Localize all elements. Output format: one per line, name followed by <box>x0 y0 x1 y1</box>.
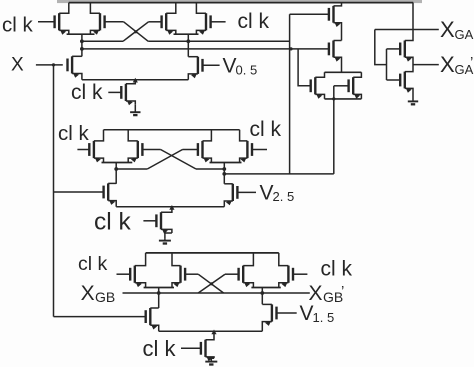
label V2.5 subscript <box>273 189 295 204</box>
junction arrow tail3 drain <box>211 330 216 335</box>
junction arrow tail2 drain <box>169 205 174 210</box>
ground stage1 <box>130 104 140 115</box>
wire M11 gate stub <box>252 149 267 151</box>
label V2.5 main <box>260 181 274 204</box>
transistor M18 clk right (stage3 pair2) <box>279 253 293 288</box>
wire stage2 output to keeper <box>224 173 333 175</box>
wire M13 gate stub <box>237 191 256 193</box>
label clk stage1 tail <box>71 81 103 104</box>
label XGB' subscript <box>323 289 343 305</box>
transistor M6 V0.5 (stage1 lower pair) <box>188 57 202 80</box>
wire stage3 top rail <box>146 252 279 254</box>
label V1.5 subscript <box>313 310 335 325</box>
wire XGA' node <box>413 64 439 66</box>
wire M4 gate stub <box>211 21 226 23</box>
svg-text:cl k: cl k <box>321 257 353 280</box>
junction nodeB / V05 drain <box>186 39 190 43</box>
wire cross diagonal 2 (M3 gate to left node) <box>123 22 149 42</box>
wire M23 source to keeper <box>341 58 343 73</box>
junction crossing stage1 <box>134 30 137 33</box>
wire stage2 pair2 output vertical <box>223 163 225 184</box>
wire stage3 pair1 output rail <box>144 287 174 289</box>
wire tail2 source jog <box>165 233 172 239</box>
junction arrow tail1 drain <box>133 78 138 83</box>
label XGB' prime <box>341 283 344 300</box>
transistor M10 cross-coupled (stage2 pair2) <box>183 130 212 163</box>
label XGB main <box>81 282 95 305</box>
svg-text:cl k: cl k <box>2 13 34 36</box>
svg-text:cl k: cl k <box>58 122 90 145</box>
label clk stage2 left <box>58 122 90 145</box>
label clk stage3 tail <box>143 336 177 361</box>
wire clk1 left gate <box>38 21 55 23</box>
wire X vertical bus left <box>53 65 55 317</box>
label clk stage2 tail <box>94 209 132 236</box>
wire keeper bottom rail <box>325 98 362 100</box>
transistor M15 clk left (stage3 pair1) <box>117 253 146 288</box>
wire s2 cross diagonal 2 <box>147 150 182 170</box>
transistor M17 cross-coupled (stage3 pair2) <box>225 253 253 288</box>
svg-text:X: X <box>440 52 455 77</box>
transistor M27 keeper right <box>349 72 362 99</box>
wire X input <box>36 64 63 66</box>
wire keeper gate left vertical <box>298 49 311 86</box>
transistor M22 buffer top <box>329 3 342 27</box>
wire stage1 pair1 output rail <box>67 33 95 35</box>
svg-text:cl k: cl k <box>71 81 103 104</box>
label clk stage1 right <box>238 10 270 33</box>
junction keeper source rail / vertical <box>332 97 335 100</box>
transistor M14 clk tail stage2 <box>143 207 172 234</box>
svg-text:0. 5: 0. 5 <box>236 62 258 77</box>
transistor M13 V2.5 (stage2 lower pair) <box>224 184 237 207</box>
wire M6 gate stub <box>203 64 220 66</box>
wire M2 gate to crossing <box>105 21 124 23</box>
transistor M16 cross-coupled (stage3 pair1) <box>172 253 185 288</box>
svg-text:GA: GA <box>455 27 474 42</box>
wire XGA node <box>375 29 439 31</box>
wire stage1 source rail <box>82 79 188 81</box>
junction pair1-out / wireB <box>80 47 84 51</box>
wire stage3 pair1 output vertical <box>158 288 160 309</box>
label clk stage2 right <box>250 118 282 141</box>
svg-text:V: V <box>223 55 237 78</box>
wire inverter mid node <box>412 58 414 72</box>
transistor M11 clk right (stage2 pair2) <box>240 130 252 163</box>
wire s3 cross diagonal 2 <box>198 274 225 293</box>
vdd gray band <box>57 0 422 3</box>
transistor M5 input X (stage1 lower pair) <box>68 56 82 79</box>
svg-text:cl k: cl k <box>250 118 282 141</box>
wire inverter gates vertical <box>386 49 388 80</box>
label clk stage3 left <box>78 253 108 275</box>
transistor M26 keeper left <box>311 72 325 99</box>
wire buffer top gate <box>290 13 329 15</box>
label XGA' prime <box>470 54 473 71</box>
wire stage2 pair2 output rail <box>210 162 242 164</box>
wire mid node A1-A2 <box>341 23 343 41</box>
wire keeper top rail <box>325 71 362 73</box>
junction X wire / left vertical <box>52 63 55 66</box>
svg-text:X: X <box>11 55 24 76</box>
transistor M7 clk tail stage1 <box>108 80 135 106</box>
transistor M8 clk left (stage2 pair1) <box>77 130 103 163</box>
wire node B right (pair2 output to buffer) <box>148 40 289 42</box>
wire stage2 source rail <box>116 206 224 208</box>
svg-text:X: X <box>81 282 95 305</box>
svg-text:cl k: cl k <box>238 10 270 33</box>
svg-text:1. 5: 1. 5 <box>313 310 335 325</box>
wire M20 gate stub <box>277 312 297 314</box>
wire XGA tap down <box>375 30 387 65</box>
label XGA' main <box>440 52 455 77</box>
wire cross diagonal 1 (M2 gate to right node) <box>124 22 149 42</box>
wire tail3 source jog <box>211 358 214 361</box>
label X input <box>11 55 24 76</box>
wire node C (pair1 output to buffer gate) <box>82 48 329 50</box>
wire stage1 pair2 output rail <box>174 33 199 35</box>
label XGA' subscript <box>455 62 474 77</box>
transistor M9 cross-coupled (stage2 pair1) <box>128 130 142 163</box>
transistor M21 clk tail stage3 <box>181 331 214 361</box>
power rail VDD <box>69 2 413 4</box>
ground stage2 <box>159 239 171 244</box>
transistor M1 clk left (stage1 pair1) <box>55 3 69 35</box>
transistor M23 buffer second <box>329 41 342 62</box>
svg-text:V: V <box>300 302 314 325</box>
transistor M4 clk right (stage1 pair2) <box>196 3 210 35</box>
ground stage3 <box>205 362 217 365</box>
wire vert1 stage outputs bus <box>289 14 291 174</box>
label clk stage1 left <box>2 13 34 36</box>
svg-text:cl k: cl k <box>143 336 177 361</box>
transistor M24 inverter top <box>387 3 414 62</box>
wire s3 cross diagonal 1 <box>198 274 223 293</box>
junction wireC / vert1 <box>289 47 292 50</box>
junction XGB / pair1-out <box>157 291 161 295</box>
label XGA main <box>440 17 455 42</box>
wire stage3 source rail <box>159 330 263 332</box>
transistor M19 (stage3 lower pair left) <box>146 308 159 331</box>
label V0.5 subscript <box>236 62 258 77</box>
wire stage1 pair1 output vertical <box>81 34 83 56</box>
junction s2 pair2-out / crossA <box>222 167 226 171</box>
wire M18 gate stub <box>293 273 307 275</box>
label V1.5 main <box>300 302 314 325</box>
wire stage2 lower-left gate <box>54 191 104 193</box>
wire s2 node A left <box>116 168 147 170</box>
label XGB' main <box>309 282 323 305</box>
svg-text:cl k: cl k <box>78 253 108 275</box>
wire keeper gate vertical down <box>333 86 335 174</box>
wire stage2 pair1 output vertical <box>115 163 117 184</box>
wire XGB node <box>123 292 310 294</box>
wire stage3 pair2 output vertical <box>261 288 263 305</box>
wire s2 cross diagonal 1 <box>161 150 196 170</box>
junction pair1-out / crossA <box>80 39 84 43</box>
transistor M12 (stage2 lower pair left) <box>104 183 117 206</box>
svg-text:cl k: cl k <box>94 209 132 236</box>
wire stage2 top rail <box>104 129 240 131</box>
junction crossing stage3 <box>210 282 213 285</box>
wire keeper right gate <box>334 85 349 87</box>
ground inverter <box>408 99 418 104</box>
wire M9 gate to crossing <box>142 149 160 151</box>
transistor M3 cross-coupled (stage1 pair2) <box>149 3 176 35</box>
junction s2 pair2-out / keeper wire <box>222 172 226 176</box>
wire stage1 pair2 output vertical <box>187 34 189 57</box>
label XGA subscript <box>455 27 474 42</box>
transistor M20 V1.5 (stage3 lower pair) <box>262 304 276 331</box>
transistor M25 inverter bottom <box>387 71 414 99</box>
svg-text:GB: GB <box>95 289 115 305</box>
label XGB subscript <box>95 289 115 305</box>
svg-text:’: ’ <box>470 54 473 71</box>
svg-text:V: V <box>260 181 274 204</box>
junction s2 pair1-out / crossA <box>114 167 118 171</box>
transistor M2 cross-coupled (stage1 pair1) <box>90 3 104 35</box>
wire stage3 lower-left gate <box>54 316 146 318</box>
wire stage2 pair1 output rail <box>102 162 133 164</box>
junction XGB' / pair2-out <box>260 291 264 295</box>
svg-text:X: X <box>440 17 455 42</box>
wire M16 gate to crossing <box>185 273 198 275</box>
label clk stage3 right <box>321 257 353 280</box>
svg-text:’: ’ <box>341 283 344 300</box>
label V0.5 main <box>223 55 237 78</box>
svg-text:2. 5: 2. 5 <box>273 189 295 204</box>
wire s2 node A right <box>196 168 224 170</box>
wire node A left <box>82 40 123 42</box>
wire stage3 pair2 output rail <box>251 287 280 289</box>
